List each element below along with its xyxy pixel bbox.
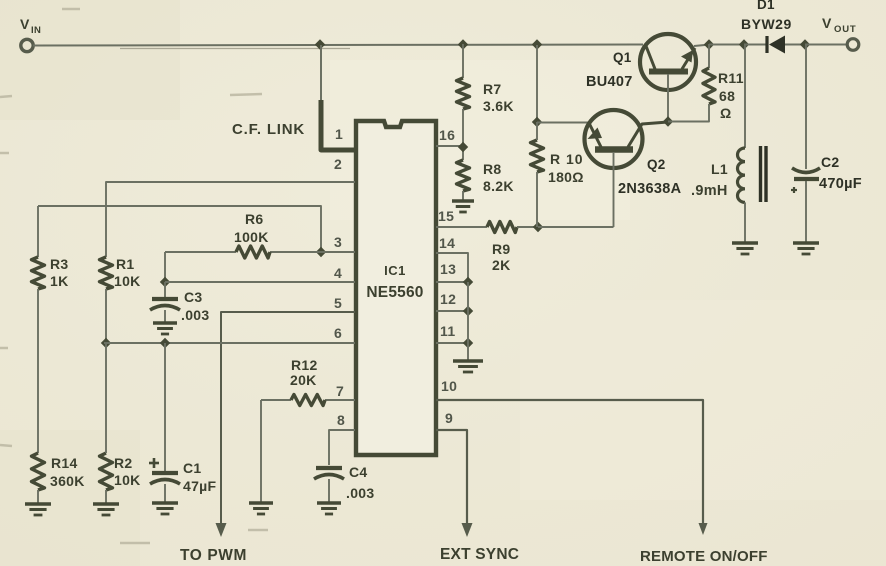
node - pin4 / C3 junction [160, 277, 170, 287]
svg-text:5: 5 [334, 295, 342, 311]
Q2 emitter diagonal with arrow [589, 123, 601, 147]
svg-text:R7: R7 [483, 81, 502, 97]
Q1 collector diagonal [646, 46, 655, 69]
arrowhead - TO PWM [216, 523, 227, 537]
resistor R3 [32, 257, 45, 289]
svg-text:.003: .003 [346, 485, 374, 501]
wire - R14 bottom lead [37, 490, 39, 504]
svg-text:OUT: OUT [834, 24, 856, 35]
svg-text:47µF: 47µF [183, 478, 217, 494]
svg-text:D1: D1 [757, 0, 775, 12]
resistor R12 20K [291, 395, 325, 406]
wire - rail to R7 column [462, 44, 464, 78]
resistor R1 [100, 257, 113, 289]
wire - pin 13 [436, 281, 468, 283]
resistor R11 68 ohm [703, 68, 715, 104]
wire - R10 leads [536, 122, 538, 140]
wire - C2 bottom lead [805, 181, 807, 243]
svg-text:360K: 360K [50, 473, 85, 489]
resistor R9 2K [487, 222, 517, 233]
wire - R9 to R10 node [517, 226, 538, 228]
node - R1/R2/pin6 junction [101, 338, 111, 348]
svg-text:R6: R6 [245, 211, 264, 227]
wire - R1 bottom to pin6 node [105, 289, 107, 343]
svg-text:13: 13 [440, 261, 456, 277]
svg-text:V: V [822, 15, 832, 31]
svg-text:16: 16 [439, 127, 455, 143]
ground - under L1 [732, 241, 758, 244]
node - pin13 junction [463, 277, 473, 287]
arrowhead - REMOTE ON/OFF [699, 523, 708, 535]
diode D1 BYW29 [765, 36, 768, 53]
svg-text:Ω: Ω [720, 105, 732, 121]
svg-text:R14: R14 [51, 455, 78, 471]
ground - under R12 drop [249, 501, 273, 504]
ground - pins 11-14 [453, 359, 483, 362]
wire - pin 12 [436, 310, 468, 312]
svg-text:8: 8 [337, 412, 345, 428]
wire - C3 column top [164, 252, 166, 282]
Q1 base lead down to driver node [667, 74, 669, 121]
svg-text:Q2: Q2 [647, 157, 666, 172]
svg-text:180Ω: 180Ω [548, 169, 584, 185]
Q2 base bar [595, 146, 633, 153]
node - pin11 junction [463, 338, 473, 348]
wire - R11 top lead [708, 44, 710, 68]
svg-text:20K: 20K [290, 372, 317, 388]
VIN input terminal [21, 39, 33, 51]
node - rail junction above C.F. link [315, 39, 325, 49]
inductor L1 .9mH coil [737, 148, 745, 202]
svg-text:R2: R2 [114, 455, 133, 471]
wire - R11 bottom to Q1 base node [668, 104, 709, 122]
svg-text:L1: L1 [711, 161, 728, 177]
svg-text:6: 6 [334, 325, 342, 341]
svg-text:Q1: Q1 [613, 50, 632, 65]
svg-text:12: 12 [440, 291, 456, 307]
wire - C.F. link thick strap to pin 1 [321, 100, 355, 150]
svg-text:8.2K: 8.2K [483, 178, 514, 194]
wire - L1 bottom lead [744, 202, 746, 243]
node - C1 top junction [160, 338, 170, 348]
wire - rail L1 node to diode [744, 44, 766, 46]
svg-text:R12: R12 [291, 357, 318, 373]
svg-text:2: 2 [334, 156, 342, 172]
ground - under R14 [25, 502, 51, 505]
arrowhead - EXT SYNC [462, 523, 473, 537]
wire - pin 8 to C4 [329, 430, 355, 465]
wire - top rail from VIN to Q1 [33, 45, 643, 46]
svg-text:10: 10 [441, 378, 457, 394]
wire - diode to output node [785, 44, 805, 46]
svg-text:10K: 10K [114, 472, 141, 488]
ground - under R8 [452, 199, 474, 202]
svg-text:BYW29: BYW29 [741, 16, 792, 32]
wire - output node to VOUT terminal [805, 44, 847, 46]
wire - C1 top lead [164, 343, 166, 471]
wire - R12 left drop to ground [260, 400, 262, 503]
node - rail junction at R11 [704, 39, 714, 49]
svg-text:IC1: IC1 [384, 263, 406, 278]
svg-text:470µF: 470µF [819, 176, 862, 192]
wire - C3 bottom lead [164, 310, 166, 323]
capacitor C2 470uF [792, 168, 820, 173]
svg-text:9: 9 [445, 410, 453, 426]
svg-text:REMOTE ON/OFF: REMOTE ON/OFF [640, 548, 768, 565]
wire - rail drop to Q2 emitter node [536, 45, 538, 122]
resistor R7 3.6K [457, 78, 470, 109]
capacitor C4 .003 [316, 466, 342, 470]
svg-text:V: V [20, 16, 30, 32]
svg-text:R 10: R 10 [550, 151, 584, 167]
svg-text:R9: R9 [492, 241, 511, 257]
node - rail junction at R10 column [532, 39, 542, 49]
resistor R8 8.2K [457, 160, 470, 191]
svg-text:1K: 1K [50, 273, 69, 289]
resistor R6 100K [236, 246, 270, 258]
transistor Q1 BU407 circle [640, 34, 696, 90]
wire - rail from Q1 emitter to R11 node [694, 45, 710, 47]
wire - Q2 base to R9/R10 node [538, 226, 614, 228]
Q2 collector diagonal [628, 122, 668, 147]
node - R9/R10/Q2 base junction [533, 222, 543, 232]
wire - pin 3 with R6 [165, 251, 236, 253]
wire - C4 bottom lead [328, 479, 330, 503]
svg-text:1: 1 [335, 126, 343, 142]
scan artifacts (decorative) [0, 9, 268, 543]
node - Q1 base / Q2 collector / R11 junction [663, 116, 673, 126]
wire - R3 bottom to R14 [37, 289, 39, 453]
Q2 base lead down [613, 152, 615, 227]
node - pin12 junction [463, 306, 473, 316]
wire - pin 16 [436, 145, 463, 147]
resistor R14 [32, 453, 45, 490]
ground - under C1 [152, 501, 178, 504]
svg-text:R3: R3 [50, 256, 69, 272]
svg-text:3.6K: 3.6K [483, 98, 514, 114]
svg-text:R1: R1 [116, 256, 135, 272]
C1 plus sign [149, 462, 159, 465]
ground - under C2 [793, 241, 819, 244]
node - output junction at C2 [800, 39, 810, 49]
svg-text:100K: 100K [234, 229, 269, 245]
wire - pin 6 common [104, 342, 355, 344]
wire - R3 top lead [37, 206, 39, 257]
svg-text:TO PWM: TO PWM [180, 547, 247, 564]
svg-text:.003: .003 [181, 307, 209, 323]
wire - pin 4 to C3 column [165, 281, 355, 283]
transistor Q2 2N3638A circle [585, 110, 643, 168]
resistor R2 [100, 453, 113, 490]
VOUT output terminal [847, 39, 859, 51]
svg-text:C2: C2 [821, 154, 840, 170]
svg-text:4: 4 [334, 265, 342, 281]
Q1 base bar [649, 69, 688, 75]
svg-text:EXT SYNC: EXT SYNC [440, 546, 519, 563]
Q1 emitter diagonal with arrow [682, 48, 695, 69]
wire - C1 bottom lead [164, 484, 166, 503]
wire - rail R11 node to L1 node [709, 44, 744, 46]
wire - pin 2 to R1 column [106, 182, 355, 257]
svg-text:10K: 10K [114, 273, 141, 289]
node - pin16/R7/R8 junction [458, 142, 468, 152]
resistor R10 180 [531, 140, 544, 172]
svg-text:15: 15 [438, 208, 454, 224]
wire - R2 leads [105, 343, 107, 453]
wire - L1 top lead [744, 44, 746, 148]
svg-text:BU407: BU407 [586, 74, 633, 90]
wire - pin 10 to REMOTE drop [436, 400, 703, 524]
svg-text:R8: R8 [483, 161, 502, 177]
svg-text:IN: IN [31, 25, 41, 36]
ground - under C4 [317, 501, 341, 504]
op-amp U1 - IC1 NE5560 body [356, 121, 436, 455]
svg-text:R11: R11 [718, 70, 744, 86]
svg-text:2K: 2K [492, 257, 511, 273]
node - R10 top / Q2 emitter junction [532, 117, 542, 127]
svg-text:C.F. LINK: C.F. LINK [232, 121, 305, 138]
wire - Q2 emitter lead [537, 122, 589, 124]
node - rail junction at R7 [458, 39, 468, 49]
wire - C2 top lead [805, 44, 807, 169]
svg-text:3: 3 [334, 234, 342, 250]
wire - R7 to pin16 node [462, 109, 464, 160]
svg-text:C4: C4 [349, 464, 368, 480]
L1 core bars [759, 146, 762, 202]
svg-text:2N3638A: 2N3638A [618, 181, 682, 197]
wire - C3 top lead [164, 282, 166, 297]
wire - ground bus drop [467, 282, 469, 361]
wire - C.F. link vertical thin part [320, 45, 322, 101]
wire - pin 5 to TO PWM drop [221, 312, 355, 524]
svg-text:11: 11 [440, 323, 455, 339]
capacitor C1 47uF [152, 471, 178, 475]
ground - under R2 [93, 502, 119, 505]
wire - R3 feed from pin3 node [38, 206, 321, 252]
wire - pin 9 to EXT SYNC drop [436, 430, 467, 523]
svg-text:C3: C3 [184, 289, 203, 305]
svg-text:NE5560: NE5560 [366, 284, 423, 301]
svg-text:C1: C1 [183, 460, 202, 476]
node - rail junction at L1 / D1 anode [739, 39, 749, 49]
wire - pin 15 to R9 [436, 226, 487, 228]
node - R3 feed junction on pin 3 wire [316, 247, 326, 257]
svg-text:7: 7 [336, 383, 344, 399]
svg-text:14: 14 [439, 235, 455, 251]
svg-text:.9mH: .9mH [691, 183, 728, 199]
ground - under C3 [153, 321, 177, 324]
wire - pin 7 with R12 [261, 399, 291, 401]
wire - pin 14 to ground bus [436, 253, 468, 282]
svg-text:68: 68 [719, 88, 735, 104]
wire - R8 bottom lead [462, 191, 464, 201]
wire - pin 11 [436, 342, 468, 344]
capacitor C3 .003 [152, 297, 178, 301]
